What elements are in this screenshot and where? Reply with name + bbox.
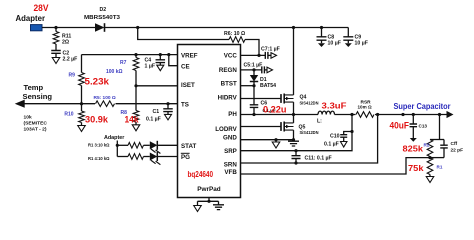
resistor R10 (79, 111, 85, 123)
svg-text:100 kΩ: 100 kΩ (106, 69, 123, 75)
resistor R8 (133, 111, 139, 123)
svg-text:LODRV: LODRV (215, 126, 237, 133)
LED D3 STAT indicator (150, 141, 158, 149)
wire C9 to ground (347, 40, 349, 43)
IC U1 bq24640 charger controller body (178, 45, 241, 198)
svg-text:Temp: Temp (24, 83, 44, 92)
svg-text:VFB: VFB (224, 169, 237, 176)
node top rail / R6 branch (136, 26, 139, 29)
ground arrow after C7 (271, 53, 277, 59)
arrow to external 10k thermistor (16, 100, 24, 107)
ground (signal) below PwrPad (194, 206, 202, 212)
ground (earth) below Q5 (288, 141, 299, 146)
svg-text:PwrPad: PwrPad (197, 186, 221, 193)
wire C1 to ground (167, 112, 169, 115)
wire divider top bar (430, 139, 444, 141)
wire C2 to ground (55, 53, 57, 57)
svg-text:C7:1 µF: C7:1 µF (261, 47, 280, 53)
node TS divider (80, 102, 83, 105)
capacitor C8 10uF (317, 37, 327, 40)
wire VREF net to left rail (82, 54, 178, 56)
wire Q5 source to power ground (293, 130, 295, 140)
wire TS to C1 (167, 104, 169, 109)
svg-text:R2: R2 (424, 142, 430, 147)
svg-text:REGN: REGN (219, 67, 237, 74)
node VREF/CE tie (167, 53, 170, 56)
capacitor C6 bootstrap (250, 105, 259, 108)
svg-text:C1: C1 (153, 109, 160, 115)
svg-text:1 µF: 1 µF (145, 63, 155, 69)
svg-text:0.1 µF: 0.1 µF (146, 117, 161, 123)
wire REGN pin to C5 (241, 69, 262, 71)
wire BTST to C6 (253, 86, 255, 105)
wire inductor to output / super capacitor (335, 114, 447, 116)
svg-text:825k: 825k (403, 144, 424, 154)
svg-text:GND: GND (223, 134, 237, 141)
resistor R2 825k (427, 140, 433, 157)
svg-text:R10: R10 (64, 111, 73, 117)
arrow output to super capacitor (447, 111, 454, 118)
adapter connector J1 (blue plug) (31, 25, 43, 31)
wire R1 to ground (429, 175, 431, 177)
svg-text:PH: PH (228, 111, 237, 118)
wire SRP pin to RSR left sense (241, 115, 353, 151)
capacitor C10 0.1uF (340, 135, 347, 138)
svg-text:ISET: ISET (181, 82, 195, 89)
svg-text:C10: C10 (330, 133, 340, 139)
svg-text:R9: R9 (69, 72, 76, 78)
resistor R1 75k (427, 158, 433, 175)
svg-text:VCC: VCC (224, 53, 238, 60)
wire VCC pin to C7 (241, 54, 266, 56)
svg-text:C11: 0.1 µF: C11: 0.1 µF (305, 156, 332, 162)
svg-text:SiS412DN: SiS412DN (300, 100, 320, 105)
svg-text:C5:1 µF: C5:1 µF (244, 62, 263, 68)
svg-text:D2: D2 (100, 7, 107, 13)
wire adapter stub / row tie (116, 141, 118, 157)
wire SRP to C11 (295, 151, 297, 156)
node SRN/C11 (294, 161, 297, 164)
resistor R14 (128, 154, 144, 160)
wire C10 to ground (343, 137, 345, 141)
wire LED to PG pin (157, 156, 177, 158)
node top rail / Q4 drain (292, 26, 295, 29)
ground below R1 (426, 177, 434, 183)
capacitor Cff 22pF (440, 145, 448, 148)
ground below C2 (52, 58, 60, 64)
svg-text:STAT: STAT (181, 143, 196, 150)
wire to Cff (443, 140, 445, 146)
wire VREF rail down to R9 (81, 55, 83, 73)
capacitor C2 2.2uF (51, 51, 61, 54)
wire R13 to STAT LED (144, 144, 150, 146)
node PH/Q4/Q5 (292, 113, 295, 116)
capacitor C1 0.1uF (163, 109, 173, 112)
svg-text:2Ω: 2Ω (62, 40, 69, 46)
wire VFB pin to divider midpoint (241, 158, 431, 174)
node output junction (401, 113, 404, 116)
wire top rail corner to C9 (347, 28, 349, 37)
svg-text:VREF: VREF (181, 52, 198, 59)
node C10 tap (350, 130, 353, 133)
node SRP sense / C10 (350, 113, 353, 116)
svg-text:40uF: 40uF (390, 120, 410, 130)
svg-text:R1 3:10 kΩ: R1 3:10 kΩ (88, 142, 110, 147)
svg-text:SRP: SRP (224, 148, 237, 155)
node SRN sense (RSR right) (376, 113, 379, 116)
wire R7 to ISET node (135, 71, 137, 86)
wire LODRV pin to Q5 gate (241, 126, 282, 128)
svg-text:bq24640: bq24640 (188, 170, 214, 179)
svg-text:10 µF: 10 µF (355, 41, 368, 47)
diode D1 BAT54 (250, 75, 258, 82)
resistor R13 (128, 143, 144, 149)
svg-text:2.2 µF: 2.2 µF (63, 57, 78, 63)
resistor R7 100k (133, 58, 139, 71)
svg-text:MBRS540T3: MBRS540T3 (84, 15, 120, 21)
wire Q4 drain to top rail (293, 28, 295, 95)
wire R14 to PG LED (144, 156, 150, 158)
svg-text:30.9k: 30.9k (85, 113, 109, 124)
transistor Q4 SiS412DN (high side) (281, 94, 294, 104)
wire BTST pin to bootstrap node (241, 85, 255, 87)
node GND/signal gnd (274, 138, 277, 141)
ground below R10 (78, 126, 86, 132)
ground below R8 (132, 125, 140, 131)
node VCC/R6/C7 (257, 54, 260, 57)
wire C13 to ground (412, 127, 414, 138)
svg-text:Cff: Cff (451, 141, 458, 147)
svg-text:R6: 10 Ω: R6: 10 Ω (224, 31, 245, 37)
resistor R11 2ohm (53, 32, 59, 45)
svg-text:R7: R7 (120, 60, 127, 66)
svg-text:Super Capacitor: Super Capacitor (394, 102, 452, 111)
svg-text:28V: 28V (34, 2, 50, 13)
node BTST (252, 84, 255, 87)
wire C8 to ground (321, 40, 323, 43)
node PwrPad ground junction (207, 200, 210, 203)
wire D1 cathode to BTST (253, 82, 255, 86)
resistor R9 (79, 73, 85, 86)
capacitor C9 10uF (343, 37, 353, 40)
svg-text:Sensing: Sensing (23, 92, 53, 101)
svg-text:C13: C13 (419, 124, 428, 129)
wire ISET pin to R7/R8 node (136, 85, 178, 87)
resistor R5 100 ohm (95, 99, 116, 109)
wire PwrPad to ground (208, 198, 210, 202)
inductor L 3.3uH (318, 111, 335, 114)
wire R10 to ground (81, 123, 83, 126)
wire output tap down to divider (439, 115, 441, 140)
node VREF/C4 (159, 53, 162, 56)
wire to R13 (117, 144, 128, 146)
wire TS net to thermistor (off-page) (23, 103, 82, 105)
ground below C4 (157, 65, 164, 71)
svg-text:R1: R1 (437, 164, 443, 169)
ground arrow after C5 (267, 67, 273, 73)
svg-text:R1 4:10 kΩ: R1 4:10 kΩ (88, 156, 110, 161)
capacitor C11 0.1uF filter (292, 156, 301, 159)
svg-text:10k: 10k (24, 114, 32, 120)
wire top rail to C8 (321, 28, 323, 37)
wire R8 to ground (135, 122, 137, 125)
wire REGN to D1 anode (253, 70, 255, 75)
wire output to C13 (412, 115, 414, 125)
svg-text:L:: L: (317, 118, 322, 124)
svg-text:HIDRV: HIDRV (218, 95, 238, 102)
ground below C13 (410, 138, 417, 142)
wire VREF tie to CE pin (169, 55, 178, 66)
node VREF/R7 (134, 53, 137, 56)
wire SRN pin to RSR right sense (241, 115, 378, 164)
wire R9 to R10 (81, 86, 83, 112)
wire top-rail branch down to R6 (138, 28, 229, 40)
node REGN/D1 (252, 68, 255, 71)
ground below C10 (340, 142, 347, 148)
ground below C8 (318, 43, 325, 47)
wire C4 to ground (159, 63, 161, 66)
node VFB midpoint (428, 156, 431, 159)
wire rail to R11 (55, 28, 57, 32)
wire VREF to R7 (135, 55, 137, 58)
wire C7 to ground arrow (268, 54, 271, 56)
svg-text:0.1 µF: 0.1 µF (324, 142, 339, 148)
svg-text:BTST: BTST (221, 81, 237, 88)
svg-text:Adapter: Adapter (104, 135, 125, 141)
wire C6 to PH (253, 107, 255, 114)
wire C11 to SRN (295, 159, 297, 164)
node SRP/C11 (294, 149, 297, 152)
wire HIDRV pin to Q4 gate (241, 98, 282, 100)
svg-text:Q4: Q4 (300, 94, 307, 100)
ground below C9 (345, 43, 352, 47)
wire ground split bar (198, 200, 219, 202)
wire sense node to C10 (344, 132, 352, 135)
wire to signal ground (197, 201, 199, 205)
wire R11 to C2 (55, 44, 57, 51)
capacitor C4 1uF (156, 60, 166, 63)
wire TS pin to divider (82, 103, 178, 105)
ground below C1 (165, 114, 172, 120)
transistor Q5 SiS412DN (low side) (281, 122, 294, 132)
wire divider mid bar (430, 157, 444, 159)
wire C5 to ground arrow (265, 69, 268, 71)
svg-text:SiS412DN: SiS412DN (300, 130, 320, 135)
svg-text:75k: 75k (408, 163, 424, 173)
wire top rail D2 cathode to C9 (105, 27, 349, 29)
wire PH pin to inductor (241, 114, 319, 116)
wire Cff to midpoint (443, 148, 445, 158)
node TS/C1 (166, 102, 169, 105)
node PH/C6 (252, 113, 255, 116)
resistor R6 (229, 37, 245, 43)
svg-text:22 pF: 22 pF (451, 148, 464, 154)
ground (signal) on GND net (272, 142, 280, 148)
node adapter/R11 junction (54, 26, 57, 29)
wire VREF to C4 (159, 55, 161, 60)
svg-text:PG: PG (181, 154, 190, 161)
LED D4 PG indicator (150, 153, 158, 161)
ground (earth) below PwrPad (213, 205, 224, 210)
diode D2 MBRS540T3 (95, 23, 105, 32)
wire GND pin to power ground (241, 139, 294, 141)
wire LED to STAT pin (157, 144, 177, 146)
svg-text:10 µF: 10 µF (328, 41, 341, 47)
capacitor C13 super capacitor 40uF (410, 124, 418, 127)
svg-text:Adapter: Adapter (16, 13, 46, 23)
svg-text:103AT - 2): 103AT - 2) (24, 127, 47, 133)
svg-text:10m Ω: 10m Ω (358, 105, 372, 110)
wire to signal ground (275, 140, 277, 142)
svg-text:CE: CE (181, 63, 190, 70)
svg-text:(SEMITEC: (SEMITEC (24, 121, 48, 127)
wire R6 to VCC node (245, 40, 259, 56)
node top rail / C8 (320, 26, 323, 29)
wire Q4 source to PH / Q5 drain (293, 102, 295, 123)
svg-text:SRN: SRN (224, 161, 238, 168)
node C13 (412, 113, 415, 116)
node feedback divider tap (438, 113, 441, 116)
svg-text:R5: 100 Ω: R5: 100 Ω (94, 95, 116, 101)
wire ISET node to R8 (135, 86, 137, 111)
wire to earth ground (218, 201, 220, 205)
svg-text:BAT54: BAT54 (260, 83, 276, 89)
svg-text:5.23k: 5.23k (85, 75, 110, 86)
node Q5 source ground (292, 138, 295, 141)
wire to R14 (117, 156, 128, 158)
svg-text:TS: TS (181, 101, 189, 108)
svg-text:3.3uF: 3.3uF (322, 101, 347, 111)
svg-text:0.22u: 0.22u (263, 105, 287, 115)
wire adapter output to diode D2 anode (42, 27, 96, 29)
resistor RSR 10 mohm sense (356, 110, 376, 119)
node LED pullup junction (116, 144, 119, 147)
node ISET (134, 84, 137, 87)
